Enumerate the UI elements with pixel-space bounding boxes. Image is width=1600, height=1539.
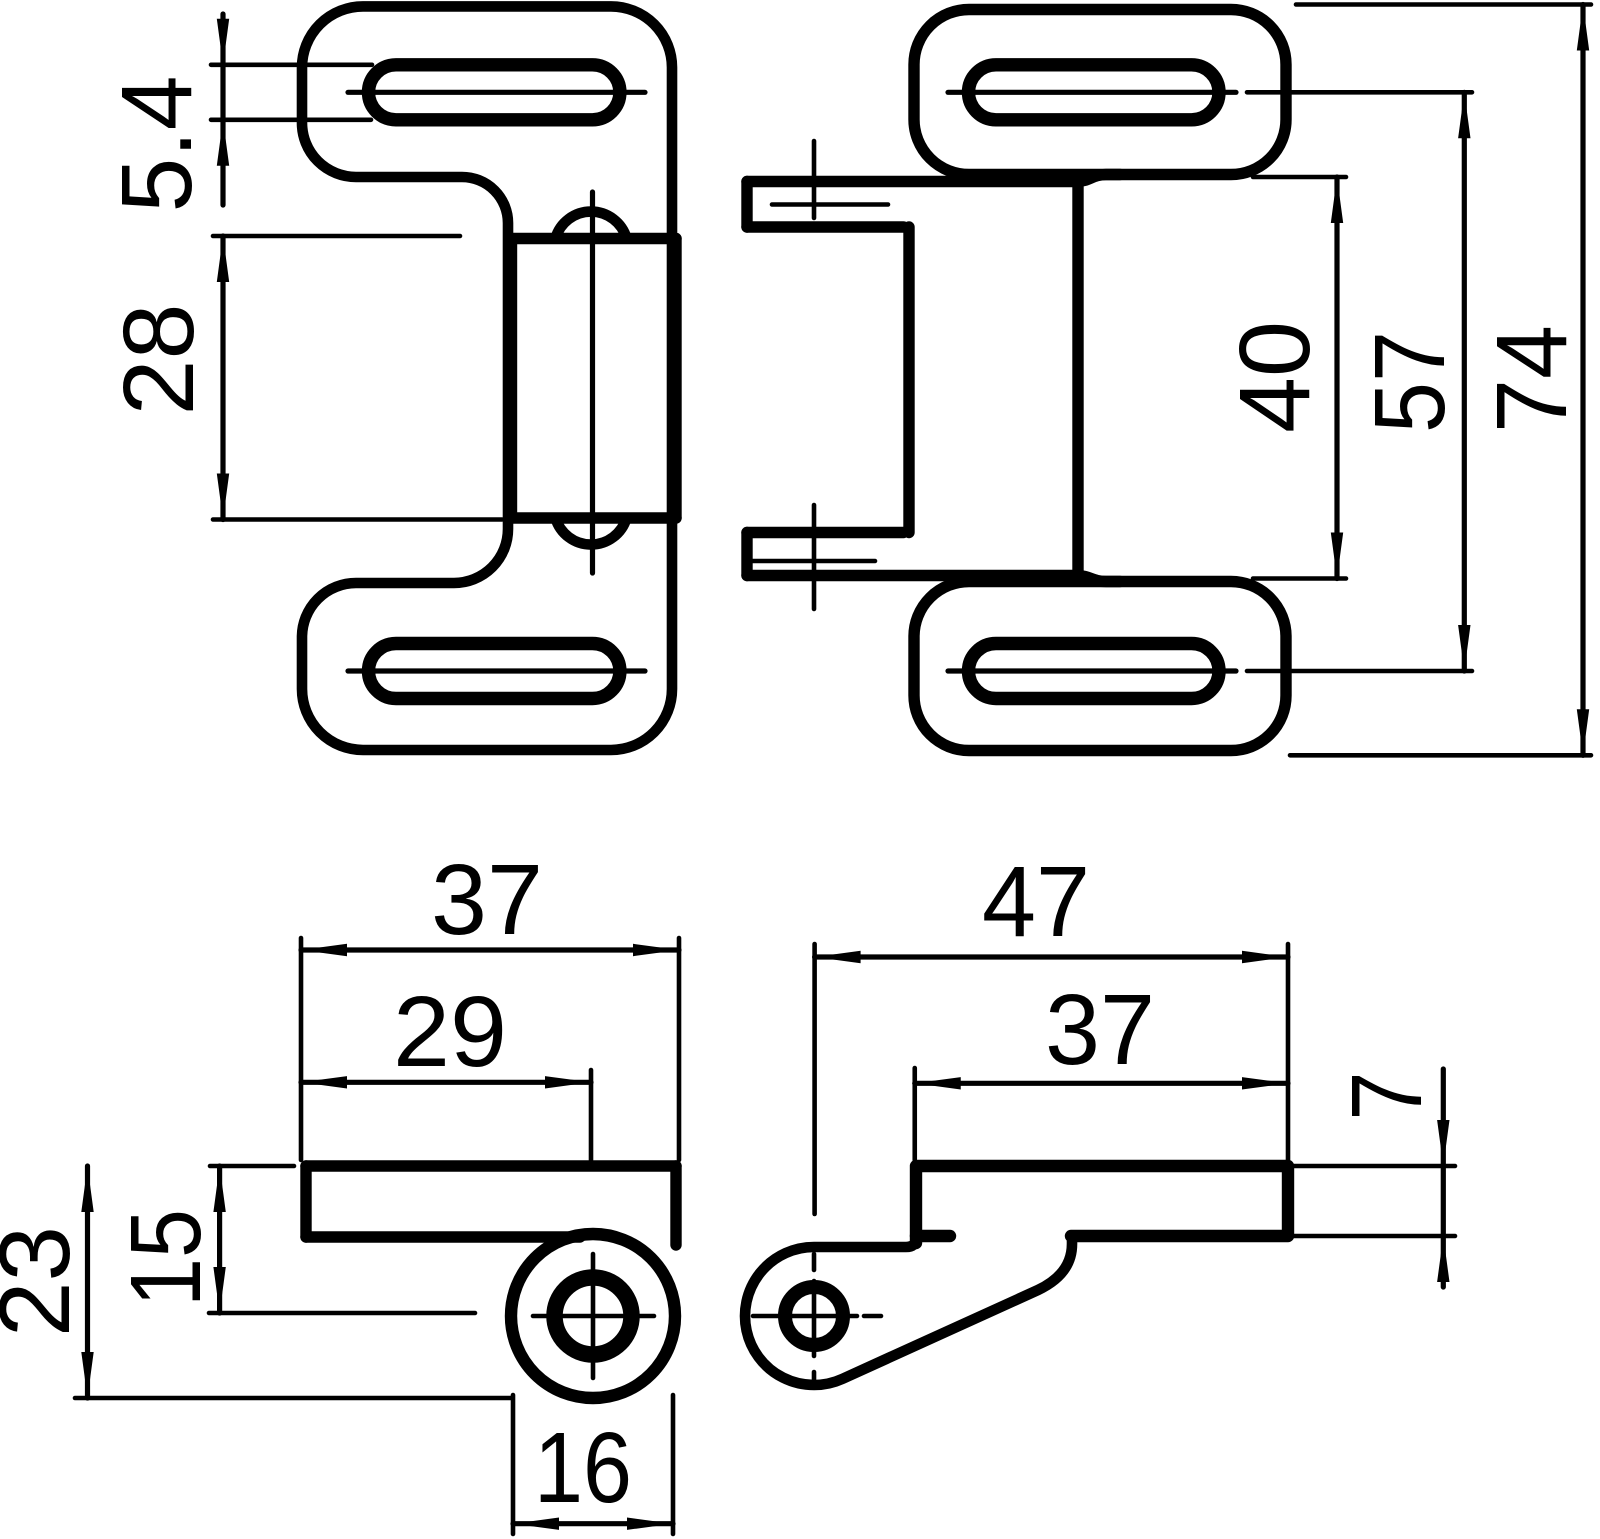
dimension 7: dimension line [1441, 1069, 1446, 1287]
svg-text:23: 23 [0, 1226, 91, 1337]
hinge part: bottom slot center line [948, 668, 1236, 673]
frame part: bottom slot [369, 644, 620, 699]
dimension 29: extension line [589, 1070, 594, 1160]
dimension 40: dimension line [1334, 177, 1339, 579]
dimension 40: extension lines [1253, 177, 1346, 579]
hinge part: top slot center line [948, 90, 1236, 95]
frame top view: knuckle barrel [511, 1234, 675, 1398]
frame part: bottom slot center line [348, 668, 645, 673]
svg-text:7: 7 [1331, 1072, 1443, 1121]
svg-text:37: 37 [1045, 974, 1155, 1086]
bottom prong pivot cross [745, 505, 875, 609]
hinge plate left edge [1072, 184, 1083, 573]
dimension 37 left: dimension line [301, 947, 679, 952]
dimension 15: dimension line [217, 1166, 222, 1313]
knuckle left edge [506, 239, 517, 519]
dimension 16: arrowheads [513, 1518, 673, 1530]
svg-text:74: 74 [1476, 325, 1588, 433]
hinge part front view: bottom ear [914, 582, 1286, 751]
svg-text:15: 15 [110, 1209, 222, 1307]
hinge top view: pivot hole crosshair [753, 1254, 881, 1387]
dimension 5.4: arrowheads [217, 19, 229, 166]
dimension 23: extension line [75, 1396, 512, 1401]
dimension 15: arrowheads [213, 1166, 225, 1313]
top prong lower edge [747, 221, 904, 232]
dimension 29: dimension line [301, 1080, 591, 1085]
frame top view: plate bottom edge [306, 1231, 580, 1242]
hinge top view: pivot hole [785, 1287, 843, 1345]
dimension 28: extension lines [213, 236, 502, 520]
hinge top view: plate outline [916, 1166, 1288, 1243]
frame top view: barrel crosshair [533, 1254, 654, 1378]
top prong upper edge [747, 175, 1120, 182]
dimension 47: dimension line [815, 954, 1288, 959]
dimension 23: arrowheads [81, 1166, 93, 1398]
svg-text:16: 16 [534, 1412, 632, 1524]
frame top view: plate right edge [670, 1166, 681, 1245]
dimension 15: extension lines [209, 1166, 475, 1313]
svg-text:57: 57 [1354, 331, 1466, 433]
knuckle axis center line [590, 192, 595, 573]
dimension 7: extension lines [1294, 1166, 1455, 1236]
knuckle bottom dome [556, 518, 627, 545]
dimension 29: arrowheads [301, 1076, 591, 1088]
dimension 47: arrowheads [815, 951, 1288, 963]
knuckle top edge [512, 233, 677, 244]
dimension 74: dimension line [1580, 5, 1585, 756]
dimension 5.4: extension lines [211, 65, 372, 120]
frame part front view: outer contour [302, 6, 672, 750]
notch inner edge [903, 227, 914, 533]
dimension 37 right: extension lines [915, 944, 1288, 1160]
svg-text:40: 40 [1219, 321, 1331, 433]
dimension 57: dimension line [1462, 92, 1467, 671]
dimension 74: extension lines [1290, 5, 1591, 756]
dimension 57: arrowheads [1458, 92, 1470, 671]
frame part: top slot [369, 65, 620, 120]
dimension 40: arrowheads [1331, 177, 1343, 579]
svg-text:5.4: 5.4 [101, 76, 213, 213]
dimension 28: dimension line [220, 236, 225, 520]
knuckle bottom edge [512, 512, 677, 523]
dimension 5.4: dimension line [220, 14, 225, 205]
hinge part: bottom ear slot [969, 644, 1220, 699]
dimension 16: extension lines [513, 1395, 673, 1534]
dimension 7: arrowheads [1437, 1120, 1449, 1282]
dimension 74: arrowheads [1577, 5, 1589, 756]
top prong pivot cross [772, 141, 888, 218]
frame top view: pin bushing [555, 1278, 632, 1355]
knuckle right edge [670, 239, 681, 519]
dimension 37 left: extension lines [301, 938, 679, 1160]
dimension 28: arrowheads [217, 236, 229, 520]
top prong tip [741, 182, 752, 228]
dimension 37 right: arrowheads [915, 1077, 1288, 1089]
svg-text:28: 28 [103, 304, 215, 416]
bottom prong upper edge [747, 527, 904, 538]
dimension 16: dimension line [513, 1521, 673, 1526]
dimension 47: extension line [812, 944, 817, 1214]
frame top view: plate top edge [306, 1160, 676, 1171]
knuckle top dome [555, 212, 626, 239]
hinge top view: arm outline [745, 1236, 1072, 1385]
frame part: top slot center line [348, 90, 645, 95]
svg-text:47: 47 [982, 846, 1090, 958]
dimension 23: dimension line [85, 1166, 90, 1398]
svg-text:37: 37 [431, 844, 543, 956]
bottom prong tip [741, 533, 752, 576]
bottom prong lower edge [747, 576, 1120, 582]
dimension 57: extension lines [1247, 92, 1472, 671]
svg-text:29: 29 [393, 976, 507, 1088]
hinge part front view: top ear [914, 10, 1286, 175]
dimension 37 left: arrowheads [301, 944, 679, 956]
hinge part: top ear slot [969, 65, 1220, 120]
dimension 37 right: dimension line [915, 1081, 1288, 1086]
frame top view: plate left edge [300, 1166, 311, 1237]
hinge top view: plate bottom edge stub [916, 1230, 950, 1242]
